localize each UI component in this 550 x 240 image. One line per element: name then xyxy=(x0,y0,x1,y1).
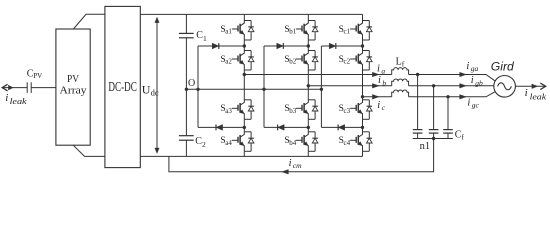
wire phase B after filter xyxy=(409,85,494,87)
svg-text:f: f xyxy=(461,133,464,142)
junction dot neutral/clamp C xyxy=(320,88,323,91)
junction dot neutral/clamp A xyxy=(196,88,199,91)
IGBT Sc1 with freewheel diode xyxy=(339,21,373,41)
PV Array box xyxy=(56,29,90,145)
wire: PV Array top to DC-DC xyxy=(73,14,105,29)
capacitor C_PV xyxy=(27,68,42,93)
svg-text:2: 2 xyxy=(202,140,206,149)
label i_c xyxy=(377,100,385,112)
DC bus negative rail xyxy=(140,155,362,157)
wire: + rail to S_b1 xyxy=(307,14,309,20)
filter capacitor Cf (phase A) xyxy=(413,75,423,139)
svg-text:c4: c4 xyxy=(344,139,351,147)
IGBT Sb2 with freewheel diode xyxy=(284,51,318,71)
svg-text:DC-DC: DC-DC xyxy=(108,80,137,95)
svg-text:O: O xyxy=(188,78,195,89)
junction dot n1 xyxy=(432,137,435,140)
current arrow i_gc xyxy=(460,95,467,100)
svg-text:i: i xyxy=(289,158,292,169)
svg-text:i: i xyxy=(5,92,8,104)
svg-text:c2: c2 xyxy=(344,58,351,66)
wire: S_b4 to - rail xyxy=(307,151,309,156)
IGBT Sb4 with freewheel diode xyxy=(284,132,318,152)
clamp diode (phase B upper) with wire xyxy=(264,43,308,49)
svg-text:L: L xyxy=(396,57,402,68)
svg-text:Gird: Gird xyxy=(491,62,515,74)
label i_gc xyxy=(467,97,479,109)
wire: S_b3 to S_b4 xyxy=(307,119,309,132)
wire: S_c1 to S_c2 xyxy=(362,40,364,51)
svg-text:c3: c3 xyxy=(344,107,351,115)
IGBT Sc2 with freewheel diode xyxy=(339,51,373,71)
svg-text:1: 1 xyxy=(203,34,207,43)
svg-text:gb: gb xyxy=(475,78,483,87)
clamp diode (phase C upper) with wire xyxy=(321,43,362,49)
wire: S_a4 to - rail xyxy=(243,151,245,156)
svg-text:a1: a1 xyxy=(225,28,232,36)
svg-text:b: b xyxy=(382,78,386,87)
wire: C_PV to PV Array xyxy=(31,87,56,89)
IGBT Sa4 with freewheel diode xyxy=(220,132,254,152)
svg-text:ga: ga xyxy=(471,64,479,73)
node O xyxy=(185,78,196,91)
junction dot clamp C upper xyxy=(361,44,364,47)
svg-text:gc: gc xyxy=(472,100,480,109)
wire: S_a3 to S_a4 xyxy=(243,119,245,132)
wire: grid to earth (right) xyxy=(515,85,545,87)
label i_b xyxy=(378,75,386,87)
svg-text:PV: PV xyxy=(33,72,42,80)
wire: S_a1 to S_a2 xyxy=(243,40,245,51)
svg-text:i: i xyxy=(378,75,381,86)
wire phase A to filter xyxy=(244,74,391,76)
clamp branch vertical (phase A) xyxy=(197,46,199,127)
svg-text:U: U xyxy=(142,82,151,96)
inductor Lf (phase A) xyxy=(392,57,409,75)
grid source (Gird) xyxy=(491,62,516,98)
clamp branch vertical (phase B) xyxy=(263,46,265,127)
earth arrow (right leakage path end) xyxy=(540,83,545,90)
svg-text:a: a xyxy=(381,67,385,76)
clamp diode (phase B lower) with wire xyxy=(264,125,308,131)
clamp diode (phase A lower) with wire xyxy=(198,125,244,131)
label i_gb xyxy=(471,75,483,87)
junction dot neutral/clamp B xyxy=(262,88,265,91)
current arrow i_c xyxy=(372,95,379,100)
wire: + rail to S_c1 xyxy=(362,14,364,20)
label i_leak (left) xyxy=(5,92,27,106)
common-mode return wire xyxy=(169,139,434,172)
junction dot clamp B lower xyxy=(307,126,310,129)
junction dot clamp A upper xyxy=(243,44,246,47)
capacitor C2 xyxy=(179,89,206,156)
neutral bus n1 xyxy=(413,139,453,152)
clamp diode (phase A upper) with wire xyxy=(198,43,244,49)
svg-text:i: i xyxy=(377,100,380,111)
junction dot phase A / cap drop xyxy=(416,73,419,76)
label i_a xyxy=(377,64,385,76)
svg-text:leak: leak xyxy=(530,92,547,101)
junction dot clamp A lower xyxy=(243,126,246,129)
svg-text:b3: b3 xyxy=(289,107,297,115)
junction dot phase B / cap drop xyxy=(432,84,435,87)
svg-text:i: i xyxy=(467,97,470,108)
DC-DC converter box xyxy=(105,6,140,167)
IGBT Sc4 with freewheel diode xyxy=(339,132,373,152)
svg-text:dc: dc xyxy=(151,87,159,97)
IGBT Sa2 with freewheel diode xyxy=(220,51,254,71)
svg-text:c1: c1 xyxy=(344,28,351,36)
wire: earth to C_PV xyxy=(2,87,27,89)
inductor Lf (phase B) xyxy=(392,79,409,86)
current arrow i_leak (left) xyxy=(8,85,13,90)
svg-text:a2: a2 xyxy=(225,58,232,66)
clamp branch vertical (phase C) xyxy=(320,46,322,127)
capacitor C1 xyxy=(179,14,207,89)
svg-text:i: i xyxy=(471,75,474,86)
svg-text:n1: n1 xyxy=(420,141,431,152)
junction dot phase B output xyxy=(307,84,310,87)
svg-text:i: i xyxy=(525,87,528,99)
svg-text:b2: b2 xyxy=(289,58,297,66)
current arrow i_leak (right) xyxy=(532,84,538,89)
current arrow i_cm xyxy=(282,170,289,175)
label i_leak (right) xyxy=(525,87,547,102)
current arrow i_ga xyxy=(460,72,467,77)
current arrow i_b xyxy=(372,84,379,89)
label i_cm xyxy=(289,158,303,170)
current arrow i_a xyxy=(372,72,379,77)
svg-text:a4: a4 xyxy=(225,139,232,147)
svg-text:a3: a3 xyxy=(225,107,232,115)
IGBT Sc3 with freewheel diode xyxy=(339,100,373,120)
IGBT Sb1 with freewheel diode xyxy=(284,21,318,41)
earth arrow (left leakage path end) xyxy=(2,84,7,91)
junction dot phase C / cap drop xyxy=(446,95,449,98)
wire: S_b1 to S_b2 xyxy=(307,40,309,51)
junction dot clamp C lower xyxy=(361,126,364,129)
inductor Lf (phase C) xyxy=(392,90,409,97)
junction dot phase C output xyxy=(361,95,364,98)
svg-text:i: i xyxy=(377,64,380,75)
svg-text:cm: cm xyxy=(293,161,302,170)
wire: S_b2 to S_b3 (phase B node) xyxy=(307,70,309,100)
svg-text:leak: leak xyxy=(10,97,28,106)
wire phase A after filter xyxy=(409,75,496,82)
wire: S_c3 to S_c4 xyxy=(362,119,364,132)
current arrow i_gb xyxy=(460,84,467,89)
wire phase B to filter xyxy=(308,85,391,87)
svg-text:c: c xyxy=(382,103,386,112)
IGBT Sa1 with freewheel diode xyxy=(220,21,254,41)
IGBT Sa3 with freewheel diode xyxy=(220,100,254,120)
wire: S_a2 to S_a3 (phase A node) xyxy=(243,70,245,100)
filter capacitor Cf (phase B) xyxy=(429,86,439,139)
label i_ga xyxy=(466,61,478,73)
wire: PV Array bottom to DC-DC xyxy=(73,145,105,156)
filter capacitor Cf (phase C) xyxy=(443,97,464,142)
junction dot clamp B upper xyxy=(307,44,310,47)
svg-text:Array: Array xyxy=(60,84,88,96)
wire: S_c4 to - rail xyxy=(362,151,364,156)
svg-text:b1: b1 xyxy=(289,28,297,36)
wire phase C after filter xyxy=(409,92,496,97)
neutral rail from node O xyxy=(186,88,321,90)
wire phase C to filter xyxy=(363,96,392,98)
wire: S_c2 to S_c3 (phase C node) xyxy=(362,70,364,100)
clamp diode (phase C lower) with wire xyxy=(321,125,362,131)
svg-text:PV: PV xyxy=(67,73,79,85)
IGBT Sb3 with freewheel diode xyxy=(284,100,318,120)
svg-text:b4: b4 xyxy=(289,139,297,147)
svg-text:i: i xyxy=(466,61,469,72)
junction dot phase A output xyxy=(243,73,246,76)
DC bus positive rail xyxy=(140,13,362,15)
wire: + rail to S_a1 xyxy=(243,14,245,20)
voltage arrow U_dc xyxy=(142,17,159,153)
